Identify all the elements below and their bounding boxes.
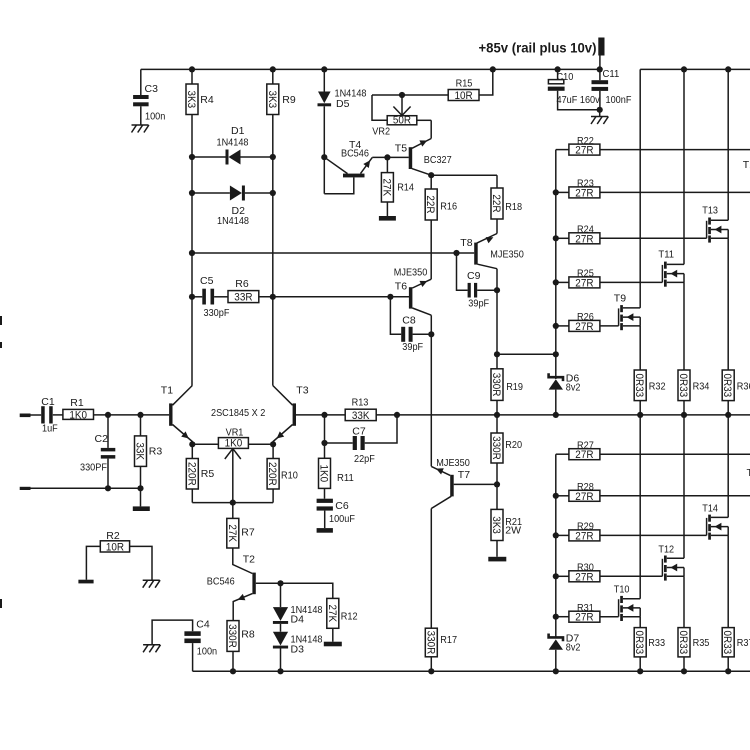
resistor R18 xyxy=(477,175,523,243)
node T1e-VR1 xyxy=(189,441,195,447)
wire T8 collector column xyxy=(496,269,498,355)
node rail-R8 xyxy=(230,668,236,674)
svg-text:T3: T3 xyxy=(296,385,308,397)
wire T11 drain column xyxy=(683,69,685,264)
wire bottom rail xyxy=(193,670,750,672)
wire +85v rail xyxy=(141,68,600,70)
transistor T5 xyxy=(395,120,452,175)
resistor R10 xyxy=(266,444,298,502)
svg-text:330R: 330R xyxy=(424,631,436,655)
node T2 base-D4 xyxy=(277,580,283,586)
svg-text:R37: R37 xyxy=(737,637,750,649)
svg-text:2W: 2W xyxy=(505,525,521,537)
svg-text:27K: 27K xyxy=(326,605,338,623)
svg-text:3K3: 3K3 xyxy=(490,516,502,534)
mosfet T9 xyxy=(614,293,640,331)
svg-text:R29: R29 xyxy=(577,521,594,533)
wire drive to gate bus xyxy=(497,353,556,355)
wire T14 source column xyxy=(727,535,729,627)
node bus-R23 xyxy=(553,189,559,195)
ground xyxy=(379,216,396,221)
svg-text:39pF: 39pF xyxy=(468,298,489,310)
node gnd rail-R3 xyxy=(137,485,143,491)
svg-text:1K0: 1K0 xyxy=(318,465,330,483)
svg-text:47uF 160v: 47uF 160v xyxy=(557,94,601,106)
node rail-D5 xyxy=(321,66,327,72)
node rail-R17 xyxy=(428,668,434,674)
svg-text:100n: 100n xyxy=(145,111,165,123)
capacitor C10 xyxy=(548,69,601,109)
wire bottom gate bus xyxy=(555,454,557,636)
svg-text:R31: R31 xyxy=(577,602,594,614)
resistor R20 xyxy=(490,415,522,485)
svg-text:T5: T5 xyxy=(395,143,407,155)
resistor R11 xyxy=(318,443,354,499)
svg-text:R25: R25 xyxy=(577,268,594,280)
svg-text:C6: C6 xyxy=(335,500,349,512)
svg-text:R14: R14 xyxy=(397,182,414,194)
svg-text:1N4148: 1N4148 xyxy=(217,137,249,149)
svg-text:100uF: 100uF xyxy=(329,513,355,525)
svg-text:BC327: BC327 xyxy=(424,154,452,166)
svg-text:C1: C1 xyxy=(41,396,55,408)
wire output bus xyxy=(397,414,750,416)
resistor R26 xyxy=(556,311,619,333)
svg-text:R24: R24 xyxy=(577,224,594,236)
node railB-T13 xyxy=(725,66,731,72)
resistor R36 xyxy=(721,370,750,415)
svg-text:10R: 10R xyxy=(455,90,473,102)
wire xyxy=(53,414,63,416)
ground xyxy=(143,580,160,588)
resistor R25 xyxy=(556,268,663,290)
svg-text:R8: R8 xyxy=(241,629,255,641)
svg-text:3K3: 3K3 xyxy=(266,91,278,109)
svg-text:R35: R35 xyxy=(693,637,710,649)
svg-text:330R: 330R xyxy=(490,436,502,460)
svg-text:VR1: VR1 xyxy=(226,426,244,438)
svg-text:R5: R5 xyxy=(201,468,215,480)
node bus-R32 xyxy=(637,412,643,418)
mosfet T13 xyxy=(702,205,728,243)
wire T7 collector column xyxy=(430,509,432,629)
svg-text:100n: 100n xyxy=(197,646,217,658)
ground xyxy=(317,528,333,533)
svg-text:T12: T12 xyxy=(658,544,674,556)
svg-text:MJE350: MJE350 xyxy=(394,267,428,279)
wire xyxy=(599,110,601,116)
node D5-T4 xyxy=(321,154,327,160)
wire T1 collector column xyxy=(191,115,193,386)
svg-text:0R33: 0R33 xyxy=(633,630,645,654)
resistor R12 xyxy=(326,598,358,641)
svg-text:R28: R28 xyxy=(577,481,594,493)
svg-text:10R: 10R xyxy=(106,541,124,553)
capacitor C1 xyxy=(41,396,58,435)
svg-text:R27: R27 xyxy=(577,439,594,451)
svg-text:R33: R33 xyxy=(648,637,665,649)
resistor R37 xyxy=(721,628,750,672)
resistor R4 xyxy=(185,69,214,114)
node C8-col xyxy=(428,331,434,337)
capacitor C5 xyxy=(192,275,229,319)
crop mark xyxy=(0,599,2,608)
node base-C2 xyxy=(105,412,111,418)
resistor R34 xyxy=(677,370,710,415)
svg-text:T1: T1 xyxy=(161,385,173,397)
transistor T3 xyxy=(273,385,309,445)
ground xyxy=(132,125,149,133)
node bus-R29 xyxy=(553,532,559,538)
wire R3 to ground xyxy=(140,488,142,506)
svg-text:2SC1845 X 2: 2SC1845 X 2 xyxy=(211,407,265,419)
node R6 row-T3 col xyxy=(270,294,276,300)
wire top gate bus xyxy=(555,150,557,377)
resistor R21 xyxy=(490,484,522,556)
node T4e-R14 xyxy=(384,154,390,160)
transistor T6 xyxy=(394,267,432,316)
svg-text:R16: R16 xyxy=(440,201,457,213)
svg-text:R34: R34 xyxy=(693,381,710,393)
transistor T2 xyxy=(207,554,281,621)
svg-text:T14: T14 xyxy=(702,503,718,515)
svg-text:T2: T2 xyxy=(243,554,255,566)
svg-text:R12: R12 xyxy=(341,611,358,623)
wire R1-T1 base xyxy=(94,414,170,416)
svg-text:R32: R32 xyxy=(649,381,666,393)
label 2SC1845 xyxy=(211,407,265,419)
svg-text:T13: T13 xyxy=(702,205,718,217)
svg-text:T10: T10 xyxy=(614,584,630,596)
potentiometer VR2 xyxy=(372,95,431,137)
svg-text:33K: 33K xyxy=(352,410,370,422)
resistor R33 xyxy=(633,628,665,672)
svg-text:C11: C11 xyxy=(603,68,620,80)
svg-text:R22: R22 xyxy=(577,135,594,147)
node gate bus drive xyxy=(553,351,559,357)
svg-text:R17: R17 xyxy=(440,634,457,646)
label +85v xyxy=(479,41,597,57)
ground xyxy=(488,557,506,562)
capacitor C11 xyxy=(592,56,632,110)
svg-text:BC546: BC546 xyxy=(341,148,369,160)
wire T13 drain column xyxy=(727,69,729,220)
node rail-C10 xyxy=(555,66,561,72)
svg-text:T6: T6 xyxy=(395,281,407,293)
zener D6 xyxy=(549,373,581,415)
mosfet T12 xyxy=(658,544,684,581)
wire T13 source column xyxy=(727,238,729,370)
wire T8 base row xyxy=(192,252,457,254)
wire emitter degeneration row xyxy=(192,502,273,504)
resistor R1 xyxy=(63,397,94,422)
svg-text:C7: C7 xyxy=(352,425,366,437)
svg-text:C10: C10 xyxy=(557,71,574,83)
node D1 right xyxy=(270,154,276,160)
diode D3 xyxy=(273,624,323,671)
svg-text:R18: R18 xyxy=(505,201,522,213)
svg-text:+85v (rail plus 10v): +85v (rail plus 10v) xyxy=(479,41,597,57)
resistor R9 xyxy=(266,69,296,114)
svg-text:330pF: 330pF xyxy=(204,307,230,319)
mosfet T14 xyxy=(702,503,728,540)
wire T9 source column xyxy=(639,326,641,370)
transistor T7 xyxy=(431,457,497,509)
capacitor C2 xyxy=(80,415,115,488)
svg-text:VR2: VR2 xyxy=(372,125,390,137)
svg-text:T11: T11 xyxy=(658,249,674,261)
svg-text:C5: C5 xyxy=(200,275,214,287)
svg-text:220R: 220R xyxy=(266,462,278,486)
svg-text:0R33: 0R33 xyxy=(721,630,733,654)
svg-text:D1: D1 xyxy=(231,125,245,137)
svg-text:C9: C9 xyxy=(467,270,481,282)
svg-text:T9: T9 xyxy=(614,293,626,305)
node T3 base-R13 xyxy=(321,412,327,418)
node bus-R36 xyxy=(725,412,731,418)
svg-text:R36: R36 xyxy=(737,381,750,393)
svg-text:27K: 27K xyxy=(380,178,392,196)
input return terminal xyxy=(20,487,141,490)
node rail-D3 xyxy=(277,668,283,674)
svg-text:R10: R10 xyxy=(281,470,298,482)
svg-text:R1: R1 xyxy=(70,397,84,409)
node T6 base-C8 xyxy=(387,294,393,300)
input terminal xyxy=(20,414,42,418)
svg-text:R3: R3 xyxy=(149,446,163,458)
power rail stub xyxy=(598,38,604,56)
svg-text:D4: D4 xyxy=(291,614,305,626)
node VR2 wiper xyxy=(399,92,405,98)
svg-text:R26: R26 xyxy=(577,311,594,323)
resistor R27 xyxy=(556,439,750,461)
resistor R17 xyxy=(424,628,457,671)
node bus-R26 xyxy=(553,323,559,329)
svg-text:R11: R11 xyxy=(337,472,354,484)
svg-text:T: T xyxy=(747,467,750,479)
resistor R15 xyxy=(448,69,493,102)
svg-text:22R: 22R xyxy=(490,194,502,212)
wire T9 drain column xyxy=(639,69,641,308)
node D2 left xyxy=(189,190,195,196)
svg-text:50R: 50R xyxy=(393,114,411,126)
svg-text:0R33: 0R33 xyxy=(721,373,733,397)
resistor R19 xyxy=(490,354,523,415)
svg-text:3K3: 3K3 xyxy=(185,91,197,109)
ground xyxy=(133,506,150,511)
node C7-R11 xyxy=(321,440,327,446)
svg-text:D3: D3 xyxy=(291,644,305,656)
svg-text:MJE350: MJE350 xyxy=(490,249,524,261)
capacitor C8 xyxy=(390,297,431,353)
svg-text:T8: T8 xyxy=(460,237,472,249)
svg-text:22pF: 22pF xyxy=(354,453,375,465)
svg-text:D5: D5 xyxy=(336,98,350,110)
node bus-R25 xyxy=(553,279,559,285)
label T15 offpage xyxy=(743,159,750,171)
node R20-R21-T7 xyxy=(494,481,500,487)
mosfet T11 xyxy=(658,249,684,287)
node C9-col xyxy=(494,287,500,293)
svg-text:R19: R19 xyxy=(506,381,523,393)
wire T12 drain column xyxy=(683,415,685,558)
svg-text:T7: T7 xyxy=(458,469,470,481)
wire T4 emitter xyxy=(372,156,409,158)
diode D1 xyxy=(192,125,273,165)
wire T6 collector column xyxy=(430,315,432,466)
node gnd rail-C2 xyxy=(105,485,111,491)
node rail-R9 xyxy=(270,66,276,72)
node T8 base-C9 xyxy=(453,250,459,256)
svg-text:R6: R6 xyxy=(235,278,249,290)
node bus-R30 xyxy=(553,573,559,579)
node rail-R33 xyxy=(637,668,643,674)
svg-text:39pF: 39pF xyxy=(402,341,423,353)
resistor R22 xyxy=(556,135,750,157)
svg-text:MJE350: MJE350 xyxy=(436,457,470,469)
crop mark xyxy=(0,342,2,348)
resistor R23 xyxy=(556,178,750,200)
wire T10 drain column xyxy=(639,415,641,599)
svg-text:R4: R4 xyxy=(200,94,214,106)
svg-text:220R: 220R xyxy=(185,462,197,486)
svg-text:27K: 27K xyxy=(226,524,238,542)
wire T11 source column xyxy=(683,282,685,370)
resistor R3 xyxy=(134,415,163,488)
node T8c-R19 xyxy=(494,351,500,357)
svg-text:1uF: 1uF xyxy=(42,423,58,435)
svg-text:330R: 330R xyxy=(226,624,238,648)
resistor R29 xyxy=(556,521,707,543)
transistor T1 xyxy=(161,385,193,445)
mosfet T10 xyxy=(614,584,640,622)
svg-text:330R: 330R xyxy=(490,373,502,397)
svg-text:100nF: 100nF xyxy=(606,94,632,106)
node D2 right xyxy=(270,190,276,196)
transistor T8 xyxy=(457,237,524,269)
node rail-R35 xyxy=(681,668,687,674)
node T8 base row left xyxy=(189,250,195,256)
resistor R16 xyxy=(424,175,457,279)
svg-text:8v2: 8v2 xyxy=(566,382,581,394)
diode D5 xyxy=(318,69,367,193)
resistor R7 xyxy=(226,503,255,574)
ground xyxy=(591,117,608,125)
svg-text:33K: 33K xyxy=(134,442,146,460)
capacitor C9 xyxy=(457,253,498,310)
resistor R5 xyxy=(185,444,214,502)
node base-R3 xyxy=(137,412,143,418)
ground xyxy=(78,580,93,584)
capacitor C6 xyxy=(317,499,355,528)
svg-text:0R33: 0R33 xyxy=(677,630,689,654)
ground xyxy=(324,642,342,647)
node T5c xyxy=(428,172,434,178)
node C5 row left xyxy=(189,294,195,300)
node bus-D6 xyxy=(553,412,559,418)
crop mark xyxy=(0,316,2,325)
svg-text:33R: 33R xyxy=(234,292,252,304)
transistor T4 xyxy=(324,139,372,194)
resistor R8 xyxy=(226,621,255,672)
svg-text:R23: R23 xyxy=(577,178,594,190)
resistor R35 xyxy=(677,628,710,672)
svg-text:1K0: 1K0 xyxy=(225,437,243,449)
svg-text:C3: C3 xyxy=(145,83,159,95)
svg-text:1N4148: 1N4148 xyxy=(217,215,249,227)
capacitor C4 xyxy=(152,619,217,672)
svg-text:T1: T1 xyxy=(743,159,750,171)
resistor R28 xyxy=(556,481,750,503)
wire drain rail B xyxy=(640,68,750,70)
svg-text:C8: C8 xyxy=(402,315,416,327)
node VR1 wiper tail xyxy=(230,500,236,506)
diode D4 xyxy=(273,583,323,625)
svg-text:R7: R7 xyxy=(241,527,255,539)
resistor R13 xyxy=(345,396,397,421)
node rail-R15 xyxy=(490,66,496,72)
node D1 left xyxy=(189,154,195,160)
resistor R2 xyxy=(86,530,152,580)
resistor R31 xyxy=(556,602,619,624)
wire T12 source column xyxy=(683,576,685,627)
node C10-C11 ground xyxy=(597,107,603,113)
svg-text:0R33: 0R33 xyxy=(633,373,645,397)
label T16 offpage xyxy=(747,467,750,479)
node T3e-VR1 xyxy=(270,441,276,447)
svg-text:R15: R15 xyxy=(456,78,473,90)
wire T14 drain column xyxy=(727,415,729,518)
svg-text:R2: R2 xyxy=(106,530,120,542)
diode D2 xyxy=(192,186,273,228)
svg-text:R30: R30 xyxy=(577,562,594,574)
node bus-R34 xyxy=(681,412,687,418)
svg-text:C4: C4 xyxy=(196,619,210,631)
resistor R32 xyxy=(633,370,666,415)
resistor R6 xyxy=(228,278,259,304)
svg-text:8v2: 8v2 xyxy=(566,642,581,654)
node railB-T11 xyxy=(681,66,687,72)
wire T3 collector column xyxy=(272,115,274,386)
node bus-R31 xyxy=(553,614,559,620)
ground xyxy=(143,645,160,653)
svg-text:22R: 22R xyxy=(424,195,436,213)
resistor R30 xyxy=(556,562,663,584)
svg-text:R9: R9 xyxy=(282,94,296,106)
wire T3 base xyxy=(296,414,345,416)
svg-text:R20: R20 xyxy=(505,439,522,451)
wire T10 source column xyxy=(639,617,641,628)
node rail-R37 xyxy=(725,668,731,674)
svg-text:1K0: 1K0 xyxy=(69,409,87,421)
resistor R14 xyxy=(380,157,414,216)
node bus-R19 xyxy=(494,412,500,418)
node rail-C11 xyxy=(597,66,603,72)
wire VR2-R15 xyxy=(372,94,449,96)
node bus-R28 xyxy=(553,493,559,499)
potentiometer VR1 xyxy=(192,426,273,502)
wire R6-T6 base xyxy=(259,296,409,298)
svg-text:330PF: 330PF xyxy=(80,462,107,474)
node rail-D7 xyxy=(553,668,559,674)
wire T2 base-R12 xyxy=(281,583,333,598)
capacitor C3 xyxy=(133,69,165,124)
svg-text:C2: C2 xyxy=(95,433,109,445)
svg-text:0R33: 0R33 xyxy=(677,373,689,397)
wire T5c row xyxy=(431,174,497,176)
zener D7 xyxy=(549,633,581,672)
node R13-bus xyxy=(394,412,400,418)
